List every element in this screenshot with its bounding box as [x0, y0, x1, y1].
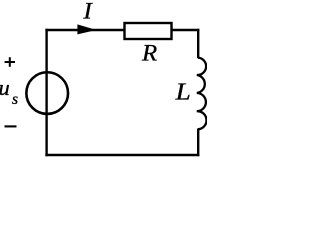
resistor R (body)	[125, 23, 172, 39]
inductor L (coil)	[197, 58, 207, 130]
wire: left vertical (through source)	[45, 29, 47, 156]
label − (source polarity)	[5, 125, 17, 127]
svg-text:L: L	[174, 80, 190, 106]
label + (source polarity, vertical bar)	[9, 57, 11, 67]
wire: bottom	[45, 154, 199, 156]
voltage source us (circle)	[26, 72, 68, 114]
label + (source polarity, horizontal bar)	[5, 61, 15, 63]
wire: right upper (top corner to inductor)	[197, 29, 199, 58]
wire: top (from left corner to right corner)	[45, 29, 199, 31]
current arrow (on top wire)	[77, 24, 93, 34]
svg-text:us: us	[0, 75, 18, 108]
svg-text:I: I	[82, 0, 93, 25]
svg-text:R: R	[141, 41, 157, 66]
wire: right lower (inductor to bottom corner)	[197, 129, 199, 157]
